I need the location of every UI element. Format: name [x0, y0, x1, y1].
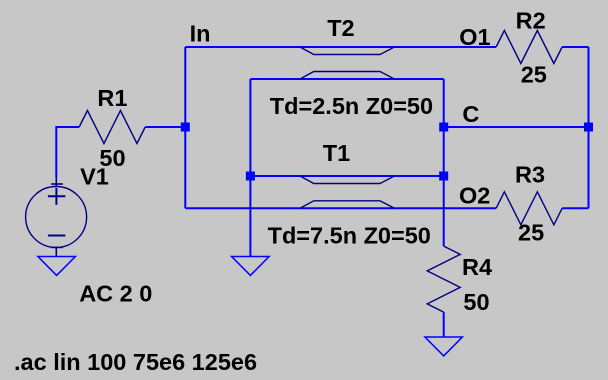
svg-text:C: C — [462, 101, 479, 127]
wire: T1 top conductor — [250, 175, 443, 177]
svg-text:R1: R1 — [97, 85, 127, 111]
svg-text:R4: R4 — [462, 254, 492, 280]
wire: R3 right lead to right edge — [562, 207, 588, 209]
svg-text:AC 2 0: AC 2 0 — [79, 281, 152, 307]
svg-text:T1: T1 — [323, 140, 350, 166]
svg-text:R3: R3 — [515, 162, 545, 188]
wire: V1 to R1 — [56, 127, 79, 177]
V1 bottom terminal tick — [51, 246, 63, 248]
svg-text:Td=7.5n Z0=50: Td=7.5n Z0=50 — [268, 223, 431, 249]
svg-text:V1: V1 — [80, 163, 109, 189]
svg-text:R2: R2 — [516, 8, 546, 34]
node T1 left junction — [246, 172, 255, 181]
ground under left vertical — [232, 257, 270, 276]
node C left junction — [439, 123, 448, 132]
svg-text:25: 25 — [521, 61, 547, 87]
wire: right edge vertical — [588, 47, 590, 208]
wire: node C horizontal — [444, 126, 589, 128]
resistor R4 — [427, 246, 460, 312]
node C right junction — [584, 123, 593, 132]
svg-text:25: 25 — [518, 220, 544, 246]
wire: In vertical — [184, 47, 186, 208]
transmission line T2 — [300, 47, 394, 79]
ground under V1 — [38, 257, 76, 276]
resistor R1 — [79, 111, 145, 144]
voltage source V1 — [26, 187, 87, 257]
svg-text:O1: O1 — [459, 24, 490, 50]
wire: R4 bottom lead to ground — [443, 312, 445, 337]
transmission line T1 — [300, 176, 394, 208]
svg-text:Td=2.5n Z0=50: Td=2.5n Z0=50 — [270, 93, 433, 119]
svg-text:.ac lin 100 75e6 125e6: .ac lin 100 75e6 125e6 — [14, 349, 257, 375]
ground under R4 — [425, 337, 463, 356]
svg-text:In: In — [190, 21, 211, 47]
V1 plus sign — [48, 188, 65, 205]
wire: R1 right lead to In node — [145, 126, 185, 128]
V1 top terminal tick — [51, 183, 63, 185]
svg-text:T2: T2 — [327, 15, 354, 41]
wire: top net In to R2 left — [185, 46, 496, 48]
wire: T2 bottom conductor — [250, 78, 443, 80]
node T1 right junction — [439, 172, 448, 181]
node In junction — [181, 123, 190, 132]
svg-text:O2: O2 — [459, 182, 490, 208]
V1 top lead — [55, 177, 57, 187]
wire: bottom net O2 — [185, 207, 496, 209]
wire: left mid vertical to ground — [249, 79, 251, 256]
wire: right mid vertical T2 to R4 — [443, 79, 445, 246]
V1 minus sign — [48, 235, 65, 237]
resistor R3 — [496, 192, 562, 225]
resistor R2 — [496, 31, 562, 64]
wire: R2 right lead to right edge — [562, 46, 588, 48]
svg-text:50: 50 — [463, 289, 489, 315]
